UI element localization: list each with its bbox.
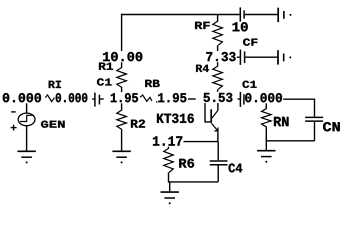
wire [169,182,171,192]
resistor R1 [117,67,127,87]
node voltage 7.33 [205,51,237,62]
wire [266,127,314,141]
wire [238,98,240,100]
wire [217,99,219,110]
wire [245,14,278,16]
capacitor CF [239,50,241,65]
wire [122,15,240,68]
wire [169,172,219,182]
wire [26,126,28,152]
generator plus sign [11,127,17,129]
generator GEN [18,113,35,126]
label R1 [99,63,113,70]
capacitor C4 [210,160,228,162]
label CN [323,122,340,131]
node voltage 1.95 right [157,92,188,103]
node voltage 0.000 at GEN [2,92,43,103]
wire [188,98,196,100]
value 10 capacitor [233,22,248,31]
transistor type KT316 [157,114,194,123]
wire [265,141,267,151]
wire [218,56,240,58]
label C4 [229,163,243,172]
wire [314,122,316,141]
wire [217,15,219,21]
wire [160,141,218,143]
resistor RF [213,21,223,45]
label R6 [179,159,194,168]
wire [121,130,123,152]
label RN [274,117,288,126]
node voltage 1.95 left [110,92,140,103]
label CF [243,38,257,45]
label R4 [196,65,209,72]
wire [217,89,219,99]
node voltage 0.000 after RI [55,92,89,103]
node voltage 5.53 collector [202,92,233,103]
resistor R6 [164,148,174,172]
resistor R4 [213,66,223,89]
ground at R6 [161,191,179,193]
wire [99,98,103,100]
capacitor C1 left [94,93,96,107]
node voltage 0.000 output [244,92,283,103]
label C1 right [243,81,257,88]
capacitor 10 [239,7,241,21]
resistor R2 [117,110,127,130]
label C1 left [97,78,112,85]
wire [121,88,123,110]
resistor RN [262,108,272,127]
node voltage 10.00 [102,51,144,62]
capacitor C1 right [239,92,241,107]
label GEN [41,121,65,128]
ground at GEN [17,150,35,152]
output terminal CF [277,50,279,64]
label RF [195,22,210,29]
wire [283,99,315,116]
wire [205,99,211,122]
generator minus sign [11,111,16,113]
wire [217,45,219,66]
ground at RN [257,150,275,152]
node voltage 1.17 emitter [152,135,184,146]
wire [217,142,219,161]
wire [265,99,267,108]
wire [245,56,277,58]
transistor Q1 KT316 [210,109,212,123]
capacitor CN [305,116,323,118]
wire [217,166,219,182]
wire [92,98,94,100]
ground at R2 [112,150,130,152]
resistor RB inline [140,95,152,101]
wire [168,142,170,148]
label RI [49,81,61,88]
wire [26,99,28,113]
label R2 [131,120,145,128]
label RB [145,80,159,87]
wire [217,131,219,142]
resistor RI inline [45,95,54,102]
output terminal top [277,8,279,22]
wire [244,98,246,100]
